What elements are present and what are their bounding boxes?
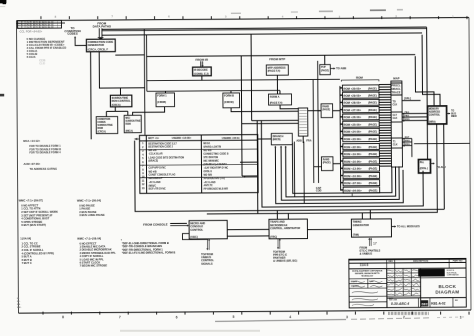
bus wire y=29.5 (double) from CCG area to right side — [102, 27, 427, 29]
bottom row of title block — [387, 297, 466, 300]
svg-text:5: 5 — [232, 315, 234, 319]
ROM row 14 — [343, 180, 380, 186]
wire pins down to ALU block — [411, 138, 413, 157]
svg-text:DEC: DEC — [422, 302, 429, 306]
vertical x=257 — [256, 121, 259, 214]
svg-text:MSG: MSG — [405, 144, 410, 146]
svg-text:DESTINATION CODE 3,5,7: DESTINATION CODE 3,5,7 — [148, 142, 177, 145]
svg-text:BUS: BUS — [451, 113, 456, 115]
svg-text:4: 4 — [289, 315, 291, 319]
MAP top dense cell — [391, 83, 402, 95]
svg-text:USERD <15:0>: USERD <15:0> — [222, 136, 241, 140]
svg-text:(CRCA): (CRCA) — [112, 104, 121, 107]
svg-text:STE BRATON: STE BRATON — [203, 156, 218, 159]
svg-text:ROM <07:00>: ROM <07:00> — [344, 181, 362, 185]
ROM row 9 — [343, 143, 380, 149]
block U18 MICRO AND CONSOLE CONTROL (UBC) — [189, 220, 227, 239]
hatched wire bundle ROM to MAP — [379, 83, 391, 85]
svg-text:(CONSL E.2): (CONSL E.2) — [194, 73, 209, 76]
svg-text:MAP: MAP — [393, 76, 399, 80]
wires RAMS outputs to ROM bracket — [333, 110, 340, 112]
bus y=56 bend into MAC — [415, 56, 434, 106]
svg-text:APGIADGAP/3 (TO): APGIADGAP/3 (TO) — [204, 177, 225, 180]
block U4 FORM A — [268, 94, 291, 105]
long vertical x=145.2 — [143, 29, 146, 135]
svg-text:CLK: CLK — [393, 144, 398, 146]
wire MUX bottom down — [302, 136, 304, 143]
block U14 MAP tall block — [391, 81, 403, 167]
svg-text:CONDITION: CONDITION — [97, 119, 110, 121]
wire PUP fed from bus y=56 — [324, 55, 326, 64]
UBC bottom arrows — [206, 239, 208, 250]
svg-text:(PAGE): (PAGE) — [369, 168, 378, 171]
ROM array left feed vertical — [339, 86, 342, 190]
TIM bottom arrows — [368, 238, 370, 246]
wire MTP block to FORM A — [276, 75, 278, 94]
svg-text:CONTROL: CONTROL — [429, 115, 441, 117]
svg-text:TRACE: TRACE — [391, 90, 400, 94]
wire loop UBC bottom left — [182, 233, 208, 239]
svg-text:ROM <26:00>: ROM <26:00> — [344, 115, 362, 119]
arrow PUP to TO ABB — [330, 67, 335, 69]
block U9 FORM 1 — [156, 93, 175, 107]
svg-text:DIAGRAM: DIAGRAM — [435, 289, 459, 294]
svg-text:11/4 8: 11/4 8 — [360, 263, 369, 267]
svg-text:USERD <14:00>: USERD <14:00> — [172, 136, 192, 140]
svg-text:TECHNOLOGY: TECHNOLOGY — [361, 276, 374, 278]
svg-text:PP BRIGADE MLB WR: PP BRIGADE MLB WR — [204, 188, 229, 191]
wire bus y=91.2 into FORM 1 — [164, 91, 166, 93]
svg-text:WD #/B: WD #/B — [203, 150, 211, 152]
long wire y=213.3 across to MAC bottom — [206, 124, 437, 214]
svg-text:FORM A: FORM A — [270, 96, 280, 99]
MAP lower cell — [391, 138, 402, 148]
svg-text:TO: TO — [451, 110, 454, 112]
pins PAG/FAG/MSG to memory address control — [402, 112, 427, 114]
svg-text:(PAGE): (PAGE) — [321, 69, 329, 72]
bus wire y=91.2 feeding FORM blocks — [147, 89, 280, 92]
block U7 CONDITION CODES SUBROUTINE ROM — [96, 117, 118, 134]
svg-text:SPARE+LOKTRI: SPARE+LOKTRI — [203, 146, 221, 149]
arrow MAC to TO BUS MEM — [447, 112, 450, 114]
zone tick marks along top edge — [40, 16, 42, 19]
svg-text:MAYNARD, MASSACHUSETTS: MAYNARD, MASSACHUSETTS — [355, 272, 380, 275]
svg-text:CCL FOR <04:02>: CCL FOR <04:02> — [20, 30, 43, 34]
svg-text:(MRA): (MRA) — [429, 121, 436, 124]
revision grid scribbles — [387, 270, 393, 271]
svg-text:SUBROUTINE: SUBROUTINE — [97, 125, 113, 127]
ROM row 6 — [343, 121, 380, 127]
svg-text:ANTLTC: ANTLTC — [204, 184, 213, 187]
svg-text:CLT: CLT — [393, 115, 398, 117]
svg-text:[ORL]: [ORL] — [404, 97, 411, 100]
feeds into TRC top — [287, 213, 289, 219]
arrow TIM right TO ALL MODULES — [391, 225, 395, 227]
double arrow FROM IR down — [200, 61, 202, 66]
wire band G — [292, 142, 392, 193]
svg-text:CODES: CODES — [67, 32, 77, 36]
ROM row 10 — [343, 151, 380, 157]
svg-text:(TIM): (TIM) — [353, 233, 359, 237]
wire into BRANCH left — [257, 138, 271, 140]
left edge scan dash — [0, 94, 4, 97]
svg-text:KB1-A-02: KB1-A-02 — [431, 302, 446, 306]
frame left border — [16, 21, 18, 313]
left column of title block — [386, 269, 388, 308]
bus wire y=56 (IR decode level) — [147, 55, 416, 57]
wires UBC to TRC — [227, 228, 269, 230]
svg-text:MIC/: MIC/ — [125, 118, 130, 120]
svg-text:+FLYLAND: +FLYLAND — [204, 181, 216, 184]
multiplexer U11 tall block — [298, 108, 308, 136]
bus wire y=34.7 to right side — [102, 33, 422, 35]
svg-text:CONNECTING CODE B: CONNECTING CODE B — [203, 153, 228, 155]
block U2 IR DECODE — [193, 67, 212, 76]
wires from left verticals into MUX — [252, 119, 299, 121]
svg-text:(PAGE): (PAGE) — [322, 108, 330, 111]
svg-text:BUT: BUT — [405, 137, 410, 139]
svg-text:ROM <10:00>: ROM <10:00> — [344, 174, 362, 178]
svg-text:+FLYLAND: +FLYLAND — [149, 181, 161, 184]
svg-text:CODES: CODES — [97, 122, 106, 124]
svg-text:(PAGE): (PAGE) — [368, 146, 377, 149]
wire band D — [275, 145, 403, 203]
svg-text:ROM <28:00>: ROM <28:00> — [344, 101, 362, 105]
svg-text:1 [04:04]: 1 [04:04] — [20, 236, 31, 240]
svg-text:(ORAL): (ORAL) — [420, 167, 428, 170]
left vertical x=242 — [240, 56, 243, 176]
svg-text:MIC WKM/MIC: MIC WKM/MIC — [203, 161, 219, 163]
svg-text:MCA <14:12>: MCA <14:12> — [23, 139, 40, 143]
TRC bottom arrows — [277, 239, 279, 249]
block U17 BRANCH (MICB) — [271, 133, 292, 145]
svg-text:WMC <7:1> [06:04]: WMC <7:1> [06:04] — [77, 236, 101, 240]
svg-text:6: 6 — [176, 315, 178, 319]
svg-text:(CRCW): (CRCW) — [224, 101, 234, 104]
svg-text:(MICB): (MICB) — [272, 138, 280, 141]
vertical x=147.4 left edge of bus box — [145, 35, 147, 92]
svg-text:ROM <30:00>: ROM <30:00> — [343, 86, 361, 90]
svg-text:-CCLK BLAR: -CCLK BLAR — [148, 152, 163, 155]
svg-text:ROM <22:00>: ROM <22:00> — [344, 145, 362, 149]
off-page wire from MSG bracket to right frame — [414, 142, 470, 144]
svg-text:ROM <27:00>: ROM <27:00> — [344, 108, 362, 112]
wire FORM 1 bottom to MICA — [133, 107, 165, 116]
svg-text:REV: REV — [388, 261, 393, 263]
wire CCG bottom-left down to notes — [90, 52, 93, 140]
wire bus y=91.2 into FORM A — [279, 90, 281, 94]
wire CCG right to vertical x=145 — [115, 54, 144, 56]
svg-text:FORM B: FORM B — [224, 95, 234, 98]
svg-text:MEMORY: MEMORY — [429, 108, 440, 110]
svg-text:(CRCA): (CRCA) — [98, 130, 106, 133]
double arrow console to UBC — [170, 222, 187, 224]
svg-text:CONST CONSOLE FLAG: CONST CONSOLE FLAG — [149, 174, 176, 177]
svg-text:PART NO: PART NO — [453, 259, 463, 262]
svg-text:MSG: MSG — [405, 119, 410, 121]
svg-text:FRA: FRA — [306, 139, 311, 142]
stub wire ROM bottom to band F — [351, 194, 353, 197]
ROM row 8 — [343, 136, 380, 142]
svg-text:III .: III . — [17, 298, 20, 300]
svg-text:DATA PATHS: DATA PATHS — [93, 24, 111, 28]
svg-text:(PAGE): (PAGE) — [368, 153, 377, 156]
vertical pair x=313.7/318.4 CAP/COD — [312, 80, 315, 183]
bus wire y=80.3 — [147, 79, 340, 80]
scanner black corner mark — [0, 0, 6, 3]
svg-text:PAL: PAL — [420, 161, 425, 164]
svg-text:PAG: PAG — [405, 111, 410, 114]
svg-text:MEM: MEM — [451, 116, 456, 118]
MAC bottom second vertical — [443, 124, 446, 209]
svg-text:ADDRESS: ADDRESS — [429, 111, 441, 114]
svg-text:(PAGE F,4): (PAGE F,4) — [268, 70, 281, 73]
svg-text:ROM: ROM — [356, 76, 363, 80]
svg-text:6 BUT (BUS START): 6 BUT (BUS START) — [21, 223, 46, 227]
zone tick marks along bottom edge — [42, 312, 44, 315]
svg-text:CLK: CLK — [393, 118, 398, 120]
svg-text:MCT <1>: MCT <1> — [148, 136, 159, 140]
svg-text:MSG: MSG — [405, 140, 410, 142]
svg-text:IIIII .: IIIII . — [17, 304, 22, 306]
wire bus y=91.2 into FORM B — [230, 91, 232, 93]
svg-text:(BRACE): (BRACE) — [148, 160, 158, 163]
scan pencil streak bottom right — [215, 319, 346, 321]
svg-text:GENERATOR: GENERATOR — [353, 223, 369, 227]
svg-text:(PAGE): (PAGE) — [369, 175, 378, 178]
svg-text:ROM: ROM — [125, 124, 130, 126]
ROM row 7 — [343, 128, 380, 134]
block U19 TRAPS AND MICROBREAK CONTROL (TRC) — [269, 219, 308, 239]
bus vertical to ALU — [426, 27, 429, 159]
svg-text:IIII .: IIII . — [17, 301, 21, 303]
svg-text:TO ADDRESS GATING: TO ADDRESS GATING — [29, 167, 57, 171]
svg-text:CONTROL, ARBITRATOR: CONTROL, ARBITRATOR — [270, 227, 300, 230]
top-left revision/key table — [17, 20, 61, 28]
svg-text:(PAGE): (PAGE) — [369, 182, 378, 185]
title block outer frame — [349, 258, 466, 308]
svg-text:DESCRIPTION: DESCRIPTION — [413, 260, 428, 262]
ROM row 15 — [343, 187, 380, 193]
svg-text:(TRC): (TRC) — [270, 236, 277, 239]
svg-text:8: 8 — [62, 315, 64, 319]
svg-text:FROM IR: FROM IR — [195, 57, 209, 61]
DEC box — [421, 300, 429, 306]
svg-text:ROM <19:00>: ROM <19:00> — [344, 152, 362, 156]
wire CCG to TO CONDITION CODES with up arrow — [75, 40, 86, 45]
wire from MCT bracket down and across — [135, 138, 445, 211]
svg-text:ROM <25:00>: ROM <25:00> — [344, 123, 362, 127]
svg-text:ROM <29:00>: ROM <29:00> — [343, 94, 361, 98]
svg-text:GENERATOR: GENERATOR — [88, 43, 104, 47]
svg-text:(PAGE): (PAGE) — [323, 161, 331, 164]
svg-text:COPY/PP DYNC: COPY/PP DYNC — [148, 167, 166, 169]
svg-text:(PAGE): (PAGE) — [369, 189, 378, 192]
svg-text:FROM MTP: FROM MTP — [269, 57, 285, 61]
svg-text:(SPARE/-C)+COUNT2: (SPARE/-C)+COUNT2 — [203, 163, 227, 166]
svg-text:ROM <24:00>: ROM <24:00> — [344, 130, 362, 134]
svg-text:ROM <16:00>: ROM <16:00> — [344, 159, 362, 163]
company logo black box — [418, 269, 445, 277]
feeds into TIM top — [369, 210, 371, 219]
svg-text:REV: REV — [455, 300, 458, 302]
scan smudges near top edge — [231, 13, 241, 14]
svg-text:NEG/1: NEG/1 — [203, 143, 211, 145]
svg-text:ADB: ADB — [296, 139, 302, 142]
ROM row 3 — [343, 99, 380, 105]
svg-text:(PAGE F,4): (PAGE F,4) — [270, 102, 283, 105]
svg-text:LOAD CODE BITS DESTINATION: LOAD CODE BITS DESTINATION — [148, 156, 184, 159]
up arrows into BRANCH bottom — [274, 146, 276, 148]
svg-text:(CRCB): (CRCB) — [157, 101, 166, 104]
svg-text:FROM CONSOLE: FROM CONSOLE — [143, 223, 168, 227]
revision grid middle — [419, 268, 421, 307]
MAP middle cell — [391, 112, 402, 122]
wire SRC bottom T-split to sub ROM blocks — [114, 107, 116, 112]
wire band E — [281, 145, 399, 200]
svg-text:WMC <7:1> [06:04]: WMC <7:1> [06:04] — [77, 198, 101, 202]
svg-text:TO ALL MODULES: TO ALL MODULES — [397, 224, 420, 228]
ROM row 1 — [342, 85, 379, 91]
faint smudge bottom left — [120, 330, 260, 332]
svg-text:(PAGE): (PAGE) — [368, 116, 377, 119]
svg-text:7 BUT C: 7 BUT C — [22, 261, 32, 265]
svg-text:RAMS: RAMS — [323, 158, 330, 161]
svg-text:DESTINATION CODE 2: DESTINATION CODE 2 — [148, 146, 173, 149]
svg-text:L1 P2 C0 R4 T2 M0 P4 K2 B4 X2: L1 P2 C0 R4 T2 M0 P4 K2 B4 X2 L4 C2 — [18, 26, 53, 29]
svg-text:(PAGE): (PAGE) — [368, 123, 377, 126]
svg-text:CONTROL: CONTROL — [190, 228, 203, 232]
svg-text:FORM 1: FORM 1 — [157, 95, 167, 98]
svg-text:IR DECODE: IR DECODE — [194, 69, 208, 72]
block U5 PUP — [320, 65, 331, 75]
left vertical x=252 — [250, 34, 253, 121]
svg-text:8-30-ABC-4: 8-30-ABC-4 — [391, 302, 409, 306]
svg-text:7 BEGIN MIC STROBE: 7 BEGIN MIC STROBE — [80, 264, 108, 268]
wire from left frame to label — [16, 22, 64, 24]
svg-text:3: 3 — [346, 315, 348, 319]
verticals under ADB / FRA — [293, 142, 295, 197]
svg-text:GRDL/1: GRDL/1 — [204, 171, 213, 173]
ROM row 4 — [343, 107, 380, 113]
svg-text:17: 17 — [373, 241, 377, 245]
arrow to TO ALU — [429, 162, 434, 164]
svg-text:(PAGE): (PAGE) — [368, 131, 377, 134]
svg-text:WMC <7:1> [09:07]: WMC <7:1> [09:07] — [19, 198, 43, 202]
ROM row 12 — [343, 165, 380, 171]
bus y=34.7 bend into MAC — [422, 35, 440, 106]
wires into RAMS blocks — [314, 166, 322, 168]
svg-text:ROM <13:00>: ROM <13:00> — [344, 167, 362, 171]
svg-text:(UBC): (UBC) — [190, 235, 198, 239]
svg-text:CLK: CLK — [393, 104, 398, 106]
svg-text:SIGNALS: SIGNALS — [201, 261, 213, 265]
svg-text:(PAGE): (PAGE) — [368, 138, 377, 141]
block U8 MIC SUBROUTINE ROM — [124, 115, 141, 133]
svg-text:7: 7 — [119, 315, 121, 319]
block U1 CORRECTION CODE GENERATOR (CCG) — [86, 39, 115, 52]
svg-text:ROM <23:00>: ROM <23:00> — [344, 137, 362, 141]
frame top border — [16, 17, 468, 20]
svg-text:ROM CONTROL: ROM CONTROL — [112, 100, 131, 103]
block U6 SUBROUTINE ROM CONTROL — [110, 95, 131, 107]
svg-text:+CAF RIGHT/PP DYNC: +CAF RIGHT/PP DYNC — [203, 166, 228, 169]
svg-text:(MB)/C: (MB)/C — [149, 185, 157, 187]
wire CCG bottom to SRC block — [99, 51, 144, 88]
svg-text:RAMS: RAMS — [322, 105, 329, 108]
svg-text:6 CC/A: 6 CC/A — [27, 55, 36, 59]
signature scribbles — [353, 281, 365, 283]
svg-text:ROM <04:00>: ROM <04:00> — [344, 188, 362, 192]
svg-text:WD #/B: WD #/B — [148, 150, 156, 152]
ROM row 5 — [343, 114, 380, 120]
block U15 MEMORY ADDRESS CONTROL — [428, 106, 447, 124]
svg-text:ROM: ROM — [98, 128, 103, 130]
svg-text:COD: COD — [316, 189, 322, 192]
svg-text:3 BUS LONG PAUSE: 3 BUS LONG PAUSE — [79, 213, 105, 217]
MCT bracket arrow — [134, 138, 138, 140]
svg-text:FAG: FAG — [405, 114, 410, 117]
ORL wire — [402, 99, 420, 101]
svg-text:*DEF-ELI-/FLYLINE-DIRECTIONAL,: *DEF-ELI-/FLYLINE-DIRECTIONAL, FORM B — [122, 250, 176, 254]
block U13 RAMS lower — [321, 157, 333, 171]
svg-text:(MICA): (MICA) — [125, 129, 133, 132]
svg-text:TO: TO — [393, 102, 396, 104]
stub into x=257 — [240, 161, 257, 163]
frame bottom border — [19, 310, 471, 313]
block U16 BUT (ALU) — [418, 159, 430, 173]
wire TRC to TIM — [307, 228, 351, 230]
svg-text:& UNIBUS: & UNIBUS — [360, 252, 373, 256]
block U20 TIMING GENERATOR (TIM) — [351, 219, 391, 237]
svg-text:CL/D: CL/D — [39, 62, 45, 65]
block U10 FORM B — [223, 93, 240, 108]
ROM row 11 — [343, 158, 380, 164]
svg-text:ACM <07:00>: ACM <07:00> — [23, 162, 40, 166]
svg-text:(CRCA, CRCB, F: (CRCA, CRCB, F — [88, 47, 109, 51]
ROM row 2 — [342, 92, 379, 98]
svg-text:(PAGE): (PAGE) — [368, 95, 377, 98]
pin group brackets — [403, 113, 405, 122]
svg-text:& UNIBUS (BR, BG): & UNIBUS (BR, BG) — [273, 259, 297, 263]
wire IR DECODE bottom to bus y=80.3 — [201, 76, 203, 80]
svg-text:SUBROUTINE: SUBROUTINE — [125, 121, 141, 123]
svg-text:(PAGE): (PAGE) — [369, 160, 378, 163]
wire FORM A bottom into MUX — [280, 105, 298, 109]
svg-text:WD R/B: WD R/B — [204, 175, 213, 177]
svg-text:WD #/B: WD #/B — [149, 171, 157, 173]
svg-text:MIC/ADD/LIT: MIC/ADD/LIT — [149, 177, 164, 180]
block U3 MTP ADDRESS — [266, 65, 288, 75]
svg-text:FOR TO DISABLE FORM 4: FOR TO DISABLE FORM 4 — [29, 151, 61, 154]
double-line arrow from FROM DATA PATHS into CCG — [98, 28, 100, 37]
wire band C to ALU bottom — [261, 120, 423, 207]
svg-text:PUP: PUP — [321, 67, 326, 69]
signal usage table — [139, 135, 258, 194]
ROM row 13 — [343, 172, 380, 178]
wire FORM B bottom into MUX — [231, 108, 298, 112]
wire band F — [286, 145, 396, 197]
svg-text:(PAGE): (PAGE) — [368, 109, 377, 112]
svg-text:(PAGE): (PAGE) — [368, 102, 377, 105]
svg-text:TO ABB: TO ABB — [336, 66, 346, 70]
svg-text:(PAGE): (PAGE) — [368, 87, 377, 90]
wire MUX right to RAMS1 — [308, 110, 321, 112]
frame right border — [469, 17, 471, 309]
block U12 RAMS upper — [321, 104, 333, 118]
svg-text:BGF+/TR DYNC: BGF+/TR DYNC — [149, 189, 166, 191]
title block header row — [349, 261, 466, 264]
